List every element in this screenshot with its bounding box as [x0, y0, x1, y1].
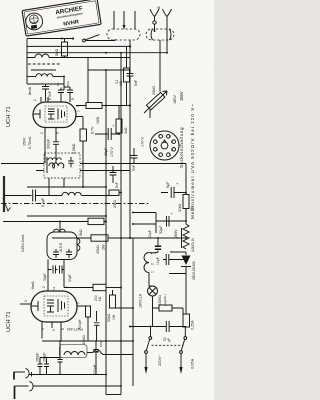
wave switch contact [83, 35, 100, 42]
wire y70 mid [88, 69, 130, 71]
capacitor grid bottom [94, 311, 103, 347]
wire 32uF return [170, 251, 186, 253]
capacitor 300pF [47, 128, 60, 164]
stamp ARCHIEF NVHR [22, 0, 101, 36]
bottom join [106, 394, 121, 396]
dial lamp [139, 286, 160, 327]
electrolytic 32uF [156, 211, 187, 238]
gang dash-dot link [1, 203, 149, 205]
vertical bus 130 [129, 40, 131, 238]
cathode wire [44, 128, 46, 164]
capacitor 5nF av [110, 166, 120, 188]
tuned secondary coil [27, 58, 64, 85]
background paper [0, 0, 214, 400]
wire y389 [34, 385, 122, 387]
resistor 20k 2W [52, 235, 187, 254]
electrolytic 12uF [148, 230, 161, 256]
band switch drum left [107, 29, 140, 40]
capacitor 5nF det [131, 148, 138, 171]
anode wire right [76, 105, 130, 107]
capacitor 200pF out [93, 340, 99, 374]
tube2 pins [41, 286, 83, 341]
heater chain scallops [144, 253, 155, 287]
vertical bus 133 [132, 238, 134, 386]
switch output wire [86, 39, 115, 41]
antenna fork a [150, 6, 161, 32]
tube UCH71 upper envelope [6, 102, 76, 128]
electrolytic 10uF cathode [95, 123, 116, 156]
resistor 5k avc [3, 218, 106, 236]
potentiometer 20k [144, 40, 167, 118]
resistor 5k antenna [54, 39, 68, 59]
capacitor 0,1uF osc [4, 190, 45, 208]
wire top left [27, 38, 73, 40]
IF can [47, 221, 80, 292]
tube1 electrodes [33, 106, 67, 122]
resistor 0,6M [72, 117, 87, 164]
antenna fork b [163, 9, 172, 53]
pickup jack 1 [14, 369, 32, 380]
padding capacitor 5nF [42, 84, 52, 101]
capacitor 500pF [77, 306, 91, 341]
mains switch 2 [179, 327, 186, 374]
wire to grid caps [63, 77, 65, 88]
tube2 electrodes [31, 296, 68, 316]
wire y216 [27, 215, 106, 217]
resistor 200k [64, 284, 122, 301]
capacitor 50uF [129, 321, 186, 342]
switch link dashed [152, 344, 184, 346]
oscillator coil [40, 192, 110, 195]
tube2 pin1 left stub [20, 303, 31, 305]
antenna coil primary [27, 39, 130, 58]
aerial switch stubs [114, 11, 135, 30]
wire y187 [27, 186, 106, 188]
capacitor pair 30pF [43, 266, 72, 291]
resistor 30k 2W [178, 164, 195, 225]
left edge artifact [3, 176, 5, 212]
PU caps 200pF 200pF [36, 353, 61, 375]
vertical bus 106 [105, 70, 107, 395]
wire y341 [42, 340, 133, 342]
hum coil tail [87, 352, 93, 354]
resistor 1520 [158, 294, 183, 314]
wire 0.6M down [82, 164, 84, 188]
band switch drum right [146, 29, 174, 40]
vertical bus 121 [120, 53, 122, 395]
coupling cap left [58, 340, 63, 374]
electrolytic 10uF heater [156, 250, 187, 274]
second bus wire [27, 52, 167, 54]
resistor 0,1M vertical [115, 46, 130, 105]
socket diagram [150, 131, 179, 160]
wire y375 [29, 374, 106, 376]
wire avc vertical [87, 58, 89, 103]
resistor 50k 1W [107, 290, 133, 322]
resistor 1M anode [86, 103, 102, 125]
paper noise [0, 0, 1, 1]
grid caps 15nF 5nF [56, 81, 73, 102]
wire cathode row [95, 133, 119, 135]
tube1 pin stubs [33, 97, 83, 134]
smoothing choke [182, 224, 196, 252]
mains switch 1 [144, 327, 151, 375]
oscillator box dashed [44, 153, 80, 196]
capacitor 5nF screen [127, 74, 139, 107]
wires psu taps [133, 213, 156, 234]
pickup jack 2 [15, 382, 34, 400]
fuse 0,25A [183, 314, 195, 330]
core dashed [28, 63, 60, 65]
long wire y170.5 [36, 170, 130, 172]
alt contact wire [27, 45, 130, 47]
tube UCH71 lower envelope [6, 291, 77, 332]
long wire y163.5 [1, 163, 186, 165]
hum filter unit [60, 345, 88, 358]
rectifier diode [181, 252, 196, 314]
resistor 1k [116, 106, 128, 135]
electrolytic 6uF [161, 181, 187, 198]
resistor 25k [109, 190, 122, 208]
